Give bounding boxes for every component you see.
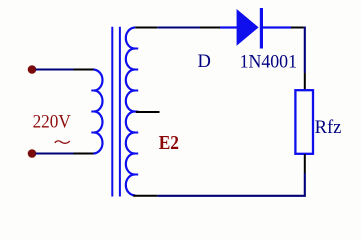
resistor top pin: [304, 73, 306, 90]
transformer secondary bottom pin: [133, 195, 157, 197]
wire (right vertical navy): [304, 27, 306, 74]
wire (top-left navy): [36, 68, 74, 70]
center tap: [136, 111, 160, 113]
ac tilde: [55, 141, 70, 143]
resistor bottom pin: [304, 154, 306, 173]
wire (bottom-left navy): [36, 152, 74, 154]
diode cathode pin: [291, 27, 304, 29]
diode cathode bar: [260, 8, 263, 49]
resistor Rfz: [295, 90, 313, 154]
svg-text:220V: 220V: [33, 113, 72, 133]
svg-text:D: D: [198, 52, 211, 72]
transformer core line 2: [119, 27, 121, 197]
diode cathode lead: [263, 26, 291, 28]
secondary winding notch curls: [134, 48, 138, 50]
diode anode pin: [200, 27, 221, 29]
transformer primary bottom pin: [74, 153, 94, 155]
terminal dot bottom-left: [28, 149, 37, 158]
diode D triangle: [237, 9, 259, 46]
svg-text:1N4001: 1N4001: [240, 52, 297, 72]
terminal dot top-left: [28, 65, 37, 74]
primary winding notch curls: [91, 90, 94, 92]
diode D anode lead: [220, 26, 238, 28]
wire (bottom navy): [157, 173, 304, 196]
svg-text:E2: E2: [159, 132, 179, 154]
transformer secondary winding: [126, 28, 136, 196]
transformer primary top pin: [74, 69, 94, 71]
svg-text:Rfz: Rfz: [315, 117, 342, 138]
transformer primary winding: [94, 70, 103, 154]
transformer core line 1: [111, 27, 113, 197]
wire (top horizontal navy): [157, 26, 200, 28]
transformer secondary top pin: [135, 27, 157, 29]
